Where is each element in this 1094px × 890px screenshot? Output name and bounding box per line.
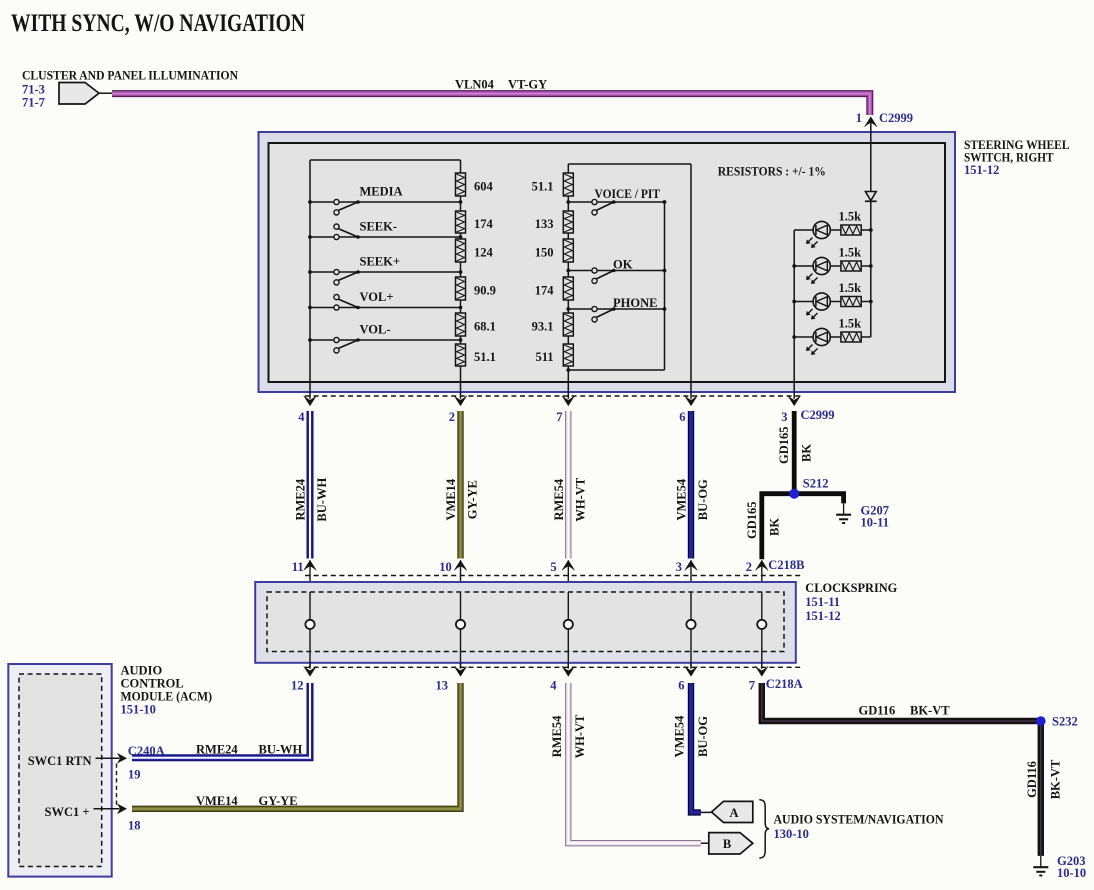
svg-text:C2999: C2999 — [879, 111, 913, 125]
svg-text:151-12: 151-12 — [805, 609, 840, 623]
svg-text:BK-VT: BK-VT — [910, 704, 950, 718]
svg-text:151-11: 151-11 — [805, 595, 840, 609]
svg-text:BK-VT: BK-VT — [1049, 759, 1063, 799]
svg-text:S232: S232 — [1052, 715, 1078, 729]
svg-text:3: 3 — [676, 560, 682, 574]
svg-text:VOL-: VOL- — [360, 323, 391, 337]
svg-text:2: 2 — [746, 560, 752, 574]
svg-text:VME54: VME54 — [675, 478, 689, 520]
svg-text:VT-GY: VT-GY — [508, 78, 547, 92]
svg-text:MEDIA: MEDIA — [360, 185, 403, 199]
svg-text:VME14: VME14 — [444, 478, 458, 520]
svg-text:BU-OG: BU-OG — [696, 479, 710, 520]
svg-text:C240A: C240A — [128, 744, 165, 758]
svg-text:CLUSTER AND PANEL ILLUMINATION: CLUSTER AND PANEL ILLUMINATION — [22, 69, 238, 83]
svg-text:10: 10 — [439, 560, 452, 574]
svg-text:PHONE: PHONE — [613, 296, 657, 310]
svg-text:19: 19 — [128, 767, 141, 781]
svg-text:71-7: 71-7 — [22, 96, 45, 110]
svg-text:7: 7 — [749, 679, 755, 693]
svg-text:C218B: C218B — [768, 558, 804, 572]
svg-text:GD165: GD165 — [745, 502, 759, 540]
svg-text:2: 2 — [449, 410, 455, 424]
svg-text:WH-VT: WH-VT — [573, 477, 587, 521]
svg-text:CONTROL: CONTROL — [121, 676, 184, 690]
svg-text:AUDIO: AUDIO — [121, 663, 163, 677]
svg-text:150: 150 — [535, 245, 554, 259]
svg-text:1.5k: 1.5k — [839, 317, 862, 331]
svg-text:C2999: C2999 — [801, 408, 835, 422]
svg-text:4: 4 — [298, 410, 305, 424]
svg-text:10-10: 10-10 — [1057, 866, 1086, 880]
svg-text:GY-YE: GY-YE — [259, 794, 298, 808]
svg-text:151-10: 151-10 — [121, 702, 156, 716]
svg-text:174: 174 — [535, 283, 555, 297]
svg-text:GY-YE: GY-YE — [466, 480, 480, 519]
svg-text:BU-OG: BU-OG — [696, 716, 710, 757]
svg-text:6: 6 — [679, 410, 685, 424]
svg-text:RME24: RME24 — [294, 478, 308, 520]
svg-text:AUDIO SYSTEM/NAVIGATION: AUDIO SYSTEM/NAVIGATION — [774, 813, 944, 827]
svg-text:VOL+: VOL+ — [360, 290, 394, 304]
svg-text:WH-VT: WH-VT — [573, 714, 587, 758]
svg-text:12: 12 — [291, 679, 304, 693]
svg-text:RME54: RME54 — [552, 478, 566, 520]
svg-text:A: A — [729, 806, 738, 820]
svg-text:130-10: 130-10 — [774, 827, 809, 841]
svg-text:7: 7 — [556, 410, 562, 424]
svg-text:71-3: 71-3 — [22, 83, 45, 97]
svg-text:4: 4 — [550, 679, 557, 693]
svg-text:WITH SYNC, W/O NAVIGATION: WITH SYNC, W/O NAVIGATION — [11, 10, 305, 37]
svg-text:VOICE / PIT: VOICE / PIT — [595, 187, 661, 201]
svg-text:1.5k: 1.5k — [839, 210, 862, 224]
svg-text:133: 133 — [535, 217, 554, 231]
svg-text:SWC1 +: SWC1 + — [45, 805, 90, 819]
svg-text:SEEK-: SEEK- — [360, 220, 398, 234]
svg-text:604: 604 — [474, 179, 494, 193]
svg-text:GD116: GD116 — [1025, 761, 1039, 798]
svg-text:68.1: 68.1 — [474, 319, 496, 333]
svg-text:RME54: RME54 — [550, 715, 564, 757]
svg-text:51.1: 51.1 — [532, 179, 554, 193]
svg-text:BK: BK — [768, 518, 782, 536]
svg-text:RME24: RME24 — [196, 743, 238, 757]
svg-text:VME54: VME54 — [673, 715, 687, 757]
svg-text:3: 3 — [781, 410, 787, 424]
svg-text:90.9: 90.9 — [474, 283, 496, 297]
svg-text:C218A: C218A — [766, 677, 803, 691]
svg-text:SWC1 RTN: SWC1 RTN — [28, 754, 92, 768]
svg-text:11: 11 — [292, 560, 304, 574]
svg-text:RESISTORS : +/- 1%: RESISTORS : +/- 1% — [718, 164, 826, 179]
svg-text:151-12: 151-12 — [964, 163, 999, 177]
svg-text:BU-WH: BU-WH — [315, 478, 329, 522]
svg-text:1.5k: 1.5k — [839, 246, 862, 260]
svg-text:GD116: GD116 — [859, 704, 896, 718]
svg-text:BU-WH: BU-WH — [259, 743, 303, 757]
svg-text:B: B — [723, 837, 731, 851]
svg-text:1: 1 — [856, 111, 862, 125]
svg-text:5: 5 — [550, 560, 556, 574]
svg-text:174: 174 — [474, 217, 494, 231]
svg-text:BK: BK — [800, 444, 814, 462]
svg-text:MODULE (ACM): MODULE (ACM) — [121, 689, 213, 703]
svg-text:51.1: 51.1 — [474, 350, 496, 364]
svg-text:VME14: VME14 — [196, 794, 238, 808]
svg-text:6: 6 — [678, 679, 684, 693]
svg-text:GD165: GD165 — [777, 427, 791, 465]
svg-text:124: 124 — [474, 245, 494, 259]
svg-text:93.1: 93.1 — [532, 319, 554, 333]
svg-text:18: 18 — [128, 819, 141, 833]
svg-text:OK: OK — [613, 257, 633, 271]
svg-text:S212: S212 — [803, 477, 829, 491]
svg-text:SEEK+: SEEK+ — [360, 255, 400, 269]
svg-text:10-11: 10-11 — [861, 516, 889, 530]
svg-text:511: 511 — [535, 350, 553, 364]
svg-text:1.5k: 1.5k — [839, 281, 862, 295]
svg-text:CLOCKSPRING: CLOCKSPRING — [805, 581, 897, 595]
svg-text:VLN04: VLN04 — [455, 78, 495, 92]
svg-text:13: 13 — [436, 679, 449, 693]
